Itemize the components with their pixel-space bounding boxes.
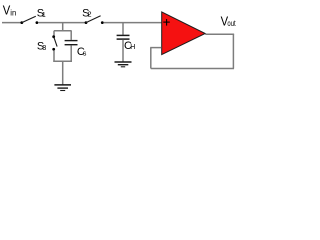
svg-text:s: s [83,51,87,58]
switch S2 [85,21,88,24]
wire top bar of parallel block [54,30,72,32]
wire junction down to CH [122,23,124,35]
wire S3 top stub [53,31,55,36]
wire feedback bottom [151,68,234,70]
capacitor CH [117,34,130,36]
wire Cs bottom stub [70,45,72,62]
wire Cs top stub [70,31,72,40]
wire CH bottom stub [122,40,124,62]
wire inverting input stub [150,47,161,49]
wire feedback left vertical [150,48,152,69]
wire junction down to parallel block [62,23,64,32]
svg-text:2: 2 [88,12,92,19]
svg-text:out: out [227,19,236,28]
ground below CH [115,61,132,63]
svg-text:3: 3 [42,45,46,52]
svg-text:in: in [10,8,16,17]
svg-text:1: 1 [42,12,46,19]
wire bottom bar of parallel block [53,60,72,62]
ground below Cs [54,84,71,86]
wire S2 to op-amp [104,22,162,24]
wire center stub down to ground [62,61,64,84]
wire S3 bottom stub [53,51,55,62]
wire feedback right vertical [232,34,234,68]
switch S3 [52,35,55,38]
sample-and-hold circuit schematic [0,0,240,95]
wire S1 to S2 [39,22,87,24]
switch S1 [20,21,23,24]
wire Vin to S1 [2,22,21,24]
op-amp U1 [162,12,206,55]
capacitor Cs [65,40,78,42]
svg-text:H: H [130,44,135,51]
wire op-amp output [205,33,234,35]
